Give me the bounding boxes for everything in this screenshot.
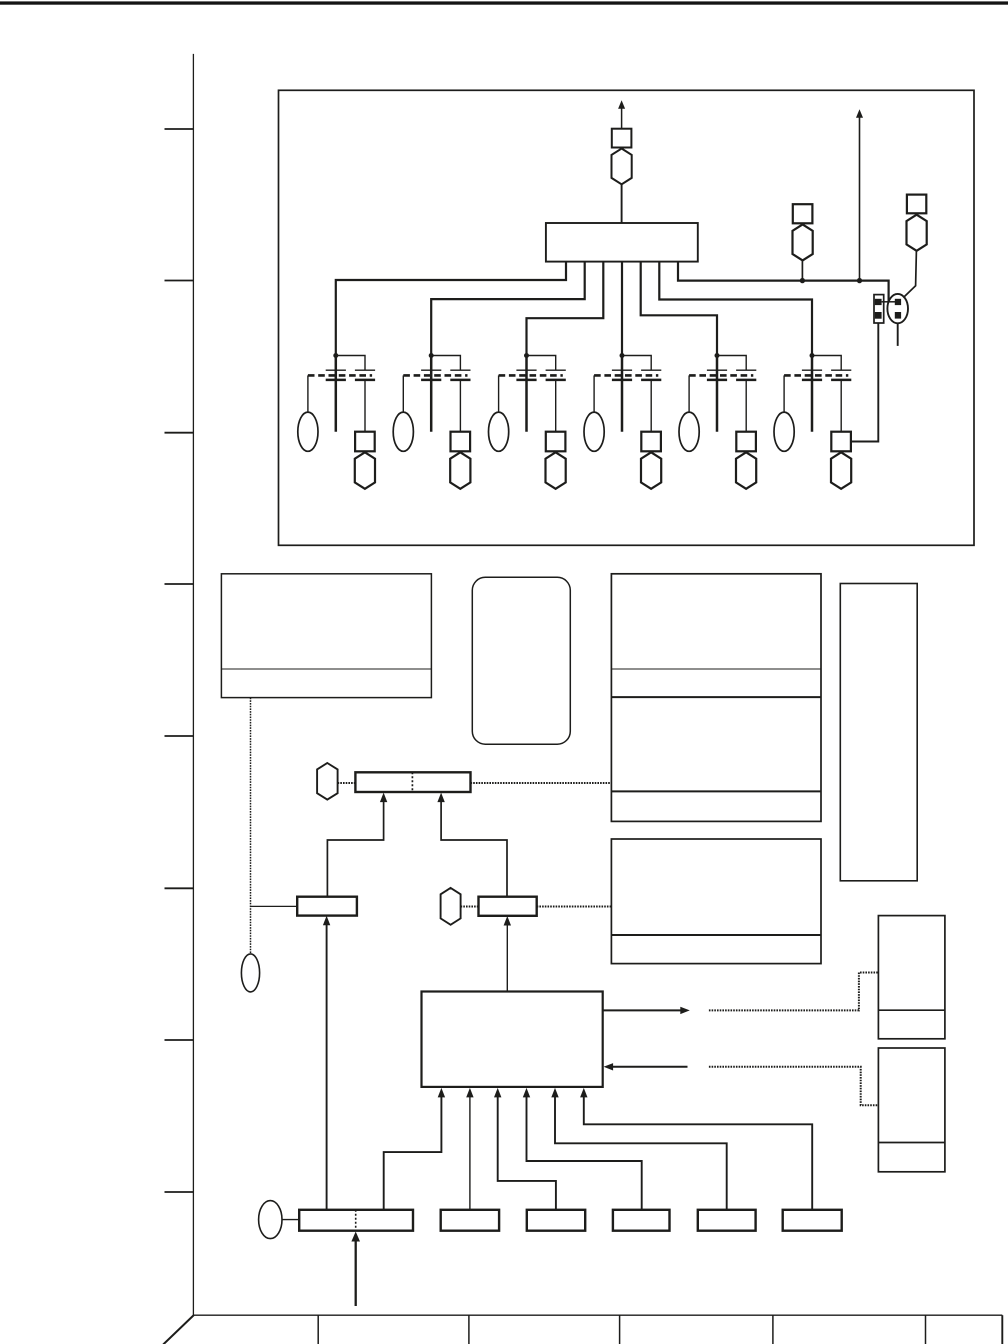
bus header box xyxy=(355,772,470,792)
harness 6 dashed cable run xyxy=(784,374,848,377)
bus header box divider xyxy=(411,772,413,792)
hub junction box xyxy=(546,223,698,262)
harness 2 connector square xyxy=(451,432,471,452)
harness 6 junction dot xyxy=(810,353,815,358)
switch feed wire with arrow xyxy=(441,801,507,898)
harness 2 dashed cable run xyxy=(403,374,467,377)
arrow up A1 xyxy=(618,100,625,109)
harness 2 center conductor xyxy=(430,356,433,432)
harness 5 label oval xyxy=(679,412,699,451)
block A divider xyxy=(355,1210,357,1231)
system board thin divider xyxy=(611,668,821,670)
harness 1 connector hexagon xyxy=(355,452,375,489)
input device block C xyxy=(527,1210,585,1231)
harness 1 connector square xyxy=(355,432,375,452)
axis tick 7 xyxy=(165,1039,194,1041)
input device block F xyxy=(783,1210,842,1231)
axis tick 8 xyxy=(165,1191,194,1193)
sensor riser 1 xyxy=(384,1096,442,1210)
processor block xyxy=(422,992,603,1087)
bus junction dot right xyxy=(857,278,862,283)
harness 4 lower plate right xyxy=(641,379,661,382)
arrow up A9 xyxy=(438,1088,445,1098)
oval pin lower xyxy=(895,312,901,319)
harness 1 connector drop wire xyxy=(364,380,366,432)
status block lower divider xyxy=(878,1142,945,1144)
side panel block xyxy=(840,584,917,881)
switch run to memory block xyxy=(537,906,612,908)
harness 5 junction dot xyxy=(715,353,720,358)
input device block D xyxy=(613,1210,670,1231)
block A label oval xyxy=(259,1201,282,1239)
bottom corner diagonal xyxy=(163,1315,194,1344)
housing pin lower xyxy=(875,312,882,319)
harness 2 junction dot xyxy=(429,353,434,358)
arrow up A6 xyxy=(504,916,511,926)
input stippled run xyxy=(709,1067,879,1106)
harness 5 connector hexagon xyxy=(736,452,756,489)
connector P0 square xyxy=(612,129,632,148)
branch bus wire 7 xyxy=(678,262,889,302)
harness 1 branch wire xyxy=(336,356,365,371)
harness 1 lower plate left xyxy=(326,379,346,382)
harness 3 lower plate right xyxy=(546,379,566,382)
bottom tick 3 xyxy=(619,1315,621,1344)
display block divider xyxy=(221,668,431,670)
harness 2 connector drop wire xyxy=(459,380,461,432)
harness 4 label oval xyxy=(584,412,604,451)
housing return wire xyxy=(851,323,879,442)
harness 1 lower plate right xyxy=(355,379,375,382)
harness 4 connector square xyxy=(641,432,661,452)
output stippled run xyxy=(709,973,879,1011)
connector P8 square xyxy=(907,195,926,214)
harness 4 center conductor xyxy=(621,356,624,432)
harness 3 label tail wire xyxy=(498,375,500,412)
arrow up A12 xyxy=(523,1088,530,1098)
harness 5 upper plate left xyxy=(707,369,727,371)
vertical scale line xyxy=(192,54,194,1315)
status block lower xyxy=(878,1048,945,1172)
connector P8 hexagon xyxy=(907,215,927,251)
branch wire 6 xyxy=(659,262,812,354)
harness 6 branch wire xyxy=(812,356,841,371)
arrow left A8 xyxy=(604,1063,614,1070)
rounded module block xyxy=(472,577,570,744)
bottom tick 4 xyxy=(772,1315,774,1344)
harness 1 dashed cable run xyxy=(308,374,372,377)
harness 2 upper plate right xyxy=(450,369,470,371)
bus header link xyxy=(338,782,356,784)
harness 3 lower plate left xyxy=(516,379,536,382)
arrow up A3 xyxy=(380,793,387,803)
harness 5 upper plate right xyxy=(736,369,756,371)
harness 6 connector drop wire xyxy=(840,380,842,432)
harness 6 label tail wire xyxy=(783,375,785,412)
arrow up A5 xyxy=(323,916,330,926)
status block upper divider xyxy=(878,1009,945,1011)
harness 1 junction dot xyxy=(333,353,338,358)
switch hexagon xyxy=(441,888,461,925)
harness 4 label tail wire xyxy=(593,375,595,412)
harness 6 label oval xyxy=(774,412,794,451)
harness 3 center conductor xyxy=(525,356,528,432)
harness 5 label tail wire xyxy=(688,375,690,412)
drop line label oval xyxy=(241,954,259,992)
harness 6 center conductor xyxy=(811,356,814,432)
hub top lead wire xyxy=(621,184,623,223)
output wire xyxy=(603,1009,684,1011)
harness 3 label oval xyxy=(489,412,509,451)
harness 6 lower plate left xyxy=(802,379,822,382)
status block upper xyxy=(878,916,945,1039)
arrow up A14 xyxy=(580,1088,587,1098)
harness 3 dashed cable run xyxy=(499,374,563,377)
tap wire to latch block xyxy=(251,905,298,907)
oval bottom stub wire xyxy=(897,323,899,346)
arrow up A4 xyxy=(437,793,444,803)
harness 4 connector hexagon xyxy=(641,452,661,489)
memory block xyxy=(611,839,821,964)
system board block xyxy=(611,574,821,822)
harness 3 upper plate right xyxy=(546,369,566,371)
upper figure frame xyxy=(279,90,975,545)
connector P7 square xyxy=(793,204,813,223)
system board divider upper xyxy=(611,696,821,698)
connector P7 drop wire xyxy=(801,260,803,280)
axis tick 2 xyxy=(165,280,194,282)
latch block xyxy=(297,897,357,916)
block A input arrow xyxy=(355,1241,357,1306)
axis tick 1 xyxy=(165,128,194,130)
sensor riser 3 xyxy=(498,1096,556,1210)
memory block divider xyxy=(611,934,821,936)
harness 6 upper plate left xyxy=(802,369,822,371)
arrow up A15 xyxy=(351,1232,360,1242)
axis tick 4 xyxy=(165,583,194,585)
arrow up A13 xyxy=(551,1088,558,1098)
switch block xyxy=(479,897,537,916)
page top rule xyxy=(0,1,1008,4)
axis tick 5 xyxy=(165,735,194,737)
harness 3 connector square xyxy=(546,432,566,452)
switch hexagon link xyxy=(461,906,479,908)
harness 5 lower plate left xyxy=(707,379,727,382)
arrow up A10 xyxy=(466,1088,473,1098)
harness 1 upper plate left xyxy=(326,369,346,371)
harness 4 upper plate left xyxy=(612,369,632,371)
housing pin upper xyxy=(875,299,882,305)
branch wire 1 xyxy=(336,262,566,354)
inline connector housing xyxy=(874,295,884,323)
sensor riser 2 xyxy=(469,1096,471,1210)
arrow up A2 xyxy=(856,109,863,118)
harness 4 connector drop wire xyxy=(650,380,652,432)
bottom right corner drop xyxy=(1001,1315,1003,1344)
riser wire with arrow xyxy=(859,116,861,281)
harness 5 branch wire xyxy=(717,356,746,371)
stippled drop line xyxy=(250,698,252,954)
bottom tick 5 xyxy=(925,1315,927,1344)
inline connector oval xyxy=(887,294,908,323)
system board divider lower xyxy=(611,790,821,792)
harness 6 upper plate right xyxy=(831,369,851,371)
harness 2 label tail wire xyxy=(402,375,404,412)
bottom edge line xyxy=(193,1314,1002,1316)
bottom tick 2 xyxy=(468,1315,470,1344)
harness 6 connector hexagon xyxy=(831,452,851,489)
harness 2 connector hexagon xyxy=(450,452,470,489)
harness 6 connector square xyxy=(831,432,851,452)
harness 1 center conductor xyxy=(335,356,338,432)
harness 5 center conductor xyxy=(716,356,719,432)
input wire xyxy=(613,1066,688,1068)
connector P0 hexagon xyxy=(612,149,632,185)
harness 4 branch wire xyxy=(622,356,651,371)
harness 5 lower plate right xyxy=(736,379,756,382)
connector P7 hexagon xyxy=(793,224,813,260)
harness 6 lower plate right xyxy=(831,379,851,382)
sensor riser 5 xyxy=(555,1096,727,1210)
bus junction dot left xyxy=(800,278,805,283)
axis tick 6 xyxy=(165,887,194,889)
harness 1 label oval xyxy=(298,412,318,451)
harness 2 label oval xyxy=(393,412,413,451)
harness 5 connector square xyxy=(736,432,756,452)
display block xyxy=(221,574,431,698)
harness 2 lower plate right xyxy=(450,379,470,382)
sensor riser 6 xyxy=(584,1096,812,1210)
harness 2 branch wire xyxy=(431,356,460,371)
harness 3 upper plate left xyxy=(516,369,536,371)
bus header hexagon xyxy=(317,763,338,800)
harness 3 connector drop wire xyxy=(555,380,557,432)
controller riser wire xyxy=(326,925,328,1210)
branch wire 5 xyxy=(641,262,717,354)
harness 5 dashed cable run xyxy=(689,374,753,377)
pin link wire xyxy=(882,301,897,303)
branch wire 3 xyxy=(527,262,604,354)
axis tick 3 xyxy=(165,432,194,434)
harness 1 upper plate right xyxy=(355,369,375,371)
harness 4 junction dot xyxy=(620,353,625,358)
hub output wire with arrow xyxy=(621,107,623,129)
harness 4 dashed cable run xyxy=(594,374,658,377)
bottom tick 1 xyxy=(317,1315,319,1344)
harness 5 connector drop wire xyxy=(745,380,747,432)
input device block E xyxy=(698,1210,756,1231)
harness 2 lower plate left xyxy=(421,379,441,382)
latch feed wire with arrow xyxy=(327,801,383,897)
input device block A xyxy=(299,1210,413,1231)
harness 3 connector hexagon xyxy=(546,452,566,489)
sensor riser 4 xyxy=(527,1096,642,1210)
harness 3 branch wire xyxy=(527,356,556,371)
arrow right A7 xyxy=(680,1007,690,1014)
branch wire 4 xyxy=(621,262,623,354)
harness 4 upper plate right xyxy=(641,369,661,371)
bus run to system board xyxy=(471,782,612,784)
connector P8 lead wire xyxy=(903,251,916,298)
oval pin upper xyxy=(895,299,901,305)
harness 1 label tail wire xyxy=(307,375,309,412)
block A oval link xyxy=(282,1219,299,1221)
harness 4 lower plate left xyxy=(612,379,632,382)
harness 2 upper plate left xyxy=(421,369,441,371)
arrow up A11 xyxy=(494,1088,501,1098)
input device block B xyxy=(441,1210,499,1231)
harness 3 junction dot xyxy=(524,353,529,358)
processor riser wire xyxy=(506,925,508,992)
branch wire 2 xyxy=(431,262,585,354)
